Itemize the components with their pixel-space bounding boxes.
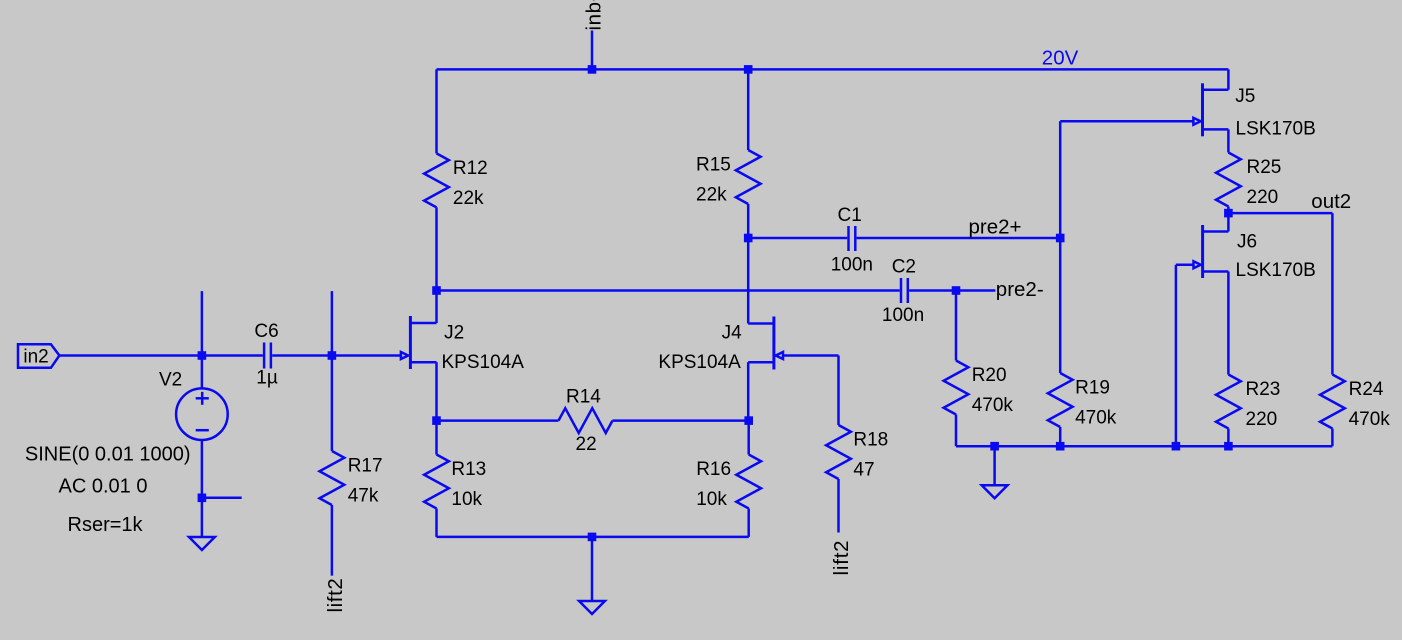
svg-text:R19: R19: [1075, 378, 1110, 399]
wire inb+ stub: [591, 31, 594, 70]
resistor R16: [736, 421, 761, 537]
wire C2 to pre2-: [909, 289, 995, 292]
ground mid: [579, 601, 605, 614]
wire stub above V2 node: [201, 291, 204, 355]
wire out2 horizontal: [1228, 212, 1332, 215]
svg-text:R23: R23: [1246, 379, 1281, 400]
node R25 bottom junction: [1224, 209, 1233, 218]
capacitor C1: [849, 226, 856, 251]
wire in2 to V2 node: [59, 354, 202, 357]
svg-text:C2: C2: [892, 257, 916, 278]
node R15 bottom junction: [744, 234, 753, 243]
transistor J2: [401, 291, 437, 421]
node R15 top junction: [744, 65, 753, 74]
wire out2 vertical to R24: [1331, 213, 1334, 374]
wire stub above R17 node: [331, 291, 334, 355]
capacitor C2: [901, 278, 908, 303]
svg-text:J2: J2: [444, 322, 464, 343]
svg-text:47: 47: [853, 460, 874, 481]
wire J5 gate vertical: [1059, 121, 1062, 238]
svg-text:LSK170B: LSK170B: [1236, 260, 1316, 281]
node pre2- junction: [952, 286, 961, 295]
wire bottom mid rail: [437, 536, 749, 539]
wire V2 to ground: [201, 498, 204, 537]
svg-text:in2: in2: [23, 347, 48, 368]
svg-text:Rser=1k: Rser=1k: [68, 514, 144, 536]
node V2 bottom junction: [198, 494, 207, 503]
wire J6 gate vertical: [1175, 265, 1178, 447]
wire right ground stub: [993, 446, 996, 485]
svg-text:20V: 20V: [1042, 46, 1079, 69]
svg-text:lift2: lift2: [830, 540, 853, 576]
svg-text:R13: R13: [451, 459, 486, 480]
node C6 right junction: [328, 351, 337, 360]
svg-text:R18: R18: [853, 430, 888, 451]
resistor R14: [437, 408, 749, 433]
svg-text:22k: 22k: [696, 185, 727, 206]
wire V2 node to source top: [201, 356, 204, 389]
resistor R24: [1320, 375, 1345, 447]
svg-text:10k: 10k: [696, 489, 727, 510]
resistor R17: [320, 356, 345, 576]
svg-text:inb+: inb+: [583, 0, 606, 31]
wire bottom right rail: [956, 445, 1332, 448]
resistor R15: [736, 69, 761, 238]
resistor R19: [1048, 238, 1073, 446]
resistor R20: [944, 291, 969, 447]
svg-text:47k: 47k: [348, 486, 379, 507]
wire top 20V rail: [437, 68, 1229, 71]
wire J5 gate: [1060, 120, 1193, 123]
resistor R25: [1216, 153, 1241, 214]
svg-text:J5: J5: [1235, 86, 1255, 107]
flag in2: [18, 344, 59, 368]
node mid ground junction: [588, 533, 597, 542]
svg-text:R15: R15: [696, 155, 731, 176]
resistor R18: [826, 356, 851, 533]
wire J4 gate: [783, 354, 839, 357]
wire J6 gate: [1176, 263, 1194, 266]
wire J2 gate: [332, 354, 401, 357]
svg-text:lift2: lift2: [324, 578, 347, 613]
svg-text:22k: 22k: [453, 188, 484, 209]
transistor J6: [1194, 213, 1229, 374]
source V2: [176, 388, 228, 440]
svg-text:R20: R20: [972, 365, 1007, 386]
svg-text:100n: 100n: [831, 255, 873, 276]
wire J2 drain to C2: [437, 289, 900, 292]
node pre2+ junction: [1056, 234, 1065, 243]
node J2 drain junction: [432, 286, 441, 295]
svg-text:V2: V2: [159, 370, 182, 391]
wire V2 bottom stub right: [202, 497, 242, 500]
wire C1 to J5 gate node: [857, 237, 1061, 240]
svg-text:220: 220: [1247, 187, 1279, 208]
svg-text:10k: 10k: [451, 489, 482, 510]
svg-text:R16: R16: [696, 459, 731, 480]
svg-text:J4: J4: [722, 322, 743, 343]
svg-text:470k: 470k: [1075, 408, 1117, 429]
svg-text:R12: R12: [453, 158, 488, 179]
svg-text:pre2+: pre2+: [969, 216, 1022, 239]
resistor R13: [424, 421, 449, 537]
svg-text:22: 22: [576, 434, 597, 455]
wire pre2+ from R15: [748, 237, 847, 240]
svg-text:SINE(0 0.01 1000): SINE(0 0.01 1000): [25, 444, 191, 466]
svg-text:1µ: 1µ: [256, 368, 278, 389]
svg-text:100n: 100n: [882, 305, 924, 326]
ground right: [982, 485, 1008, 498]
resistor R23: [1216, 375, 1241, 447]
wire V2 bottom: [201, 440, 204, 498]
resistor R12: [424, 69, 449, 290]
svg-text:C6: C6: [254, 321, 278, 342]
capacitor C6: [202, 343, 332, 369]
svg-text:out2: out2: [1311, 190, 1351, 213]
svg-text:R25: R25: [1247, 157, 1282, 178]
node J6 gate bottom junction: [1172, 442, 1181, 451]
svg-text:470k: 470k: [972, 395, 1014, 416]
wire mid ground stub: [591, 537, 594, 601]
node J2 source junction: [432, 416, 441, 425]
svg-text:470k: 470k: [1349, 409, 1391, 430]
svg-text:KPS104A: KPS104A: [658, 352, 741, 373]
svg-text:C1: C1: [838, 205, 862, 226]
node right-ground junction: [990, 442, 999, 451]
node R19 bottom junction: [1056, 442, 1065, 451]
svg-text:R24: R24: [1349, 379, 1384, 400]
ground V2: [189, 537, 215, 550]
svg-text:pre2-: pre2-: [996, 278, 1044, 301]
node inb+ junction: [588, 65, 597, 74]
svg-text:KPS104A: KPS104A: [442, 352, 525, 373]
transistor J4: [748, 238, 783, 421]
svg-text:220: 220: [1246, 409, 1278, 430]
node R23 bottom junction: [1224, 442, 1233, 451]
svg-text:AC 0.01 0: AC 0.01 0: [59, 476, 148, 498]
svg-text:R17: R17: [348, 456, 383, 477]
node in2 junction: [198, 351, 207, 360]
svg-text:J6: J6: [1237, 232, 1257, 253]
svg-text:LSK170B: LSK170B: [1236, 119, 1316, 140]
node J4 source junction: [744, 416, 753, 425]
transistor J5: [1193, 69, 1228, 152]
svg-text:R14: R14: [566, 387, 601, 408]
